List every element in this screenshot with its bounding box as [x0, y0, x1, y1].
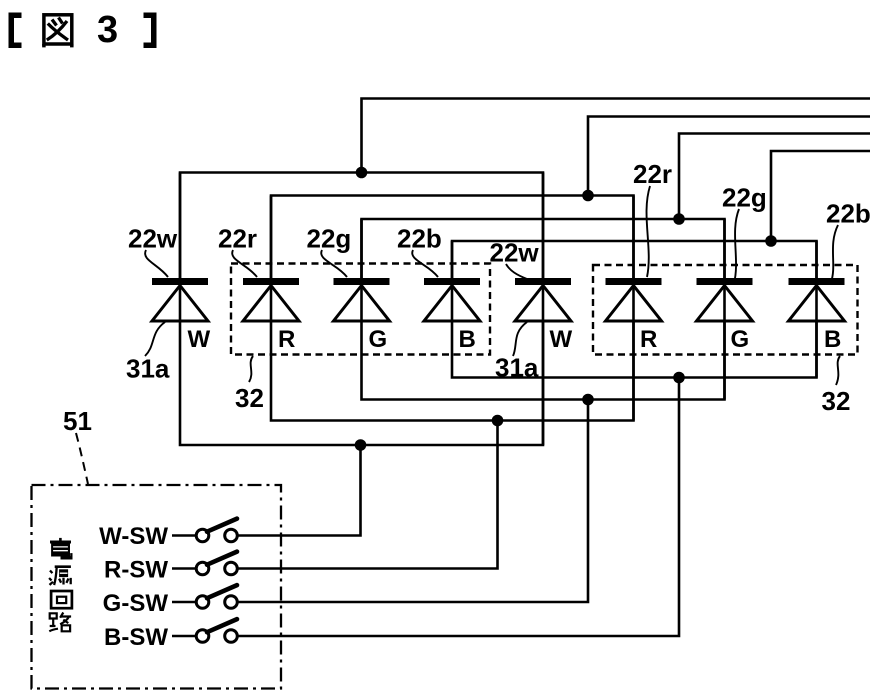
label 31a (W1): [126, 322, 170, 384]
svg-text:32: 32: [235, 383, 264, 413]
LED 22b (B1): [424, 241, 480, 353]
label 31a (W2): [495, 322, 539, 383]
LED 22g (G2): [697, 219, 753, 400]
node R cathode junction: [582, 190, 594, 202]
label 22g (G2): [722, 183, 767, 284]
wire W anode bus (bottom): [180, 321, 543, 445]
svg-text:22b: 22b: [397, 224, 442, 254]
svg-text:R: R: [278, 326, 295, 353]
wire W cathode bus (top): [180, 99, 870, 279]
node W anode junction: [355, 439, 367, 451]
label 51 (power circuit): [63, 406, 92, 484]
label 22w (W1): [128, 224, 178, 278]
wire B anode bus (bottom): [452, 321, 817, 378]
svg-text:31a: 31a: [126, 354, 170, 384]
node R anode junction: [492, 415, 504, 427]
svg-text:R: R: [640, 326, 657, 353]
kanji 源: [49, 567, 71, 585]
svg-text:W: W: [188, 326, 211, 353]
kanji 路: [49, 613, 71, 632]
kanji 回: [51, 591, 72, 608]
svg-text:R-SW: R-SW: [104, 557, 168, 584]
LED 22w (W2): [515, 173, 573, 446]
label 22b (B2): [826, 199, 870, 283]
svg-text:3: 3: [97, 9, 118, 51]
label 22r (R2): [633, 159, 672, 277]
svg-text:W-SW: W-SW: [99, 523, 168, 550]
svg-text:22r: 22r: [633, 159, 672, 189]
label 電源回路 (vertical kanji): [49, 538, 72, 631]
svg-text:22b: 22b: [826, 199, 870, 229]
label 32 (group 2): [822, 356, 851, 416]
kanji 電: [50, 538, 73, 560]
wire G cathode bus (top): [362, 134, 870, 279]
wire B switch riser: [238, 378, 680, 637]
dashed box 32 (group 2 RGB): [593, 265, 858, 355]
label 22w (W2): [490, 238, 540, 280]
node B anode junction: [673, 372, 685, 384]
wire R anode bus (bottom): [271, 321, 634, 421]
switch G-SW: [103, 585, 238, 617]
svg-text:51: 51: [63, 406, 92, 436]
svg-text:G-SW: G-SW: [103, 590, 169, 617]
wire W switch riser: [238, 445, 361, 536]
LED 22w (W1): [152, 173, 211, 354]
LED 22g (G1): [334, 219, 390, 353]
svg-text:W: W: [550, 326, 573, 353]
label 22b (B1): [397, 224, 442, 278]
switch W-SW: [99, 519, 237, 550]
LED 22r (R2): [606, 196, 662, 421]
svg-text:22r: 22r: [218, 224, 257, 254]
wire G switch riser: [238, 400, 589, 603]
dashed box 32 (group 1 RGB): [231, 264, 490, 355]
svg-text:B: B: [459, 326, 476, 353]
switch B-SW: [104, 619, 237, 651]
wire G anode bus (bottom): [362, 321, 725, 400]
svg-text:22w: 22w: [128, 224, 178, 254]
power supply box 51 (dash-dot): [32, 485, 282, 689]
node B cathode junction: [765, 235, 777, 247]
svg-text:B: B: [824, 326, 841, 353]
LED 22b (B2): [789, 241, 845, 378]
svg-text:G: G: [369, 326, 388, 353]
label 22g (G1): [307, 224, 352, 278]
wire R cathode bus (top): [271, 117, 870, 279]
svg-text:22g: 22g: [307, 224, 352, 254]
label 32 (group 1): [235, 356, 264, 413]
node G anode junction: [582, 394, 594, 406]
svg-text:G: G: [731, 326, 750, 353]
wire B cathode bus (top): [452, 151, 870, 278]
wire R switch riser: [238, 421, 498, 569]
svg-text:B-SW: B-SW: [104, 624, 168, 651]
svg-text:22w: 22w: [490, 238, 540, 268]
title 【図 3】: [9, 9, 157, 51]
node W cathode junction: [356, 167, 368, 179]
LED 22r (R1): [243, 196, 299, 354]
svg-text:31a: 31a: [495, 353, 539, 383]
label 22r (R1): [218, 224, 257, 278]
svg-text:32: 32: [822, 386, 851, 416]
node G cathode junction: [673, 213, 685, 225]
svg-text:22g: 22g: [722, 183, 767, 213]
switch R-SW: [104, 552, 237, 584]
